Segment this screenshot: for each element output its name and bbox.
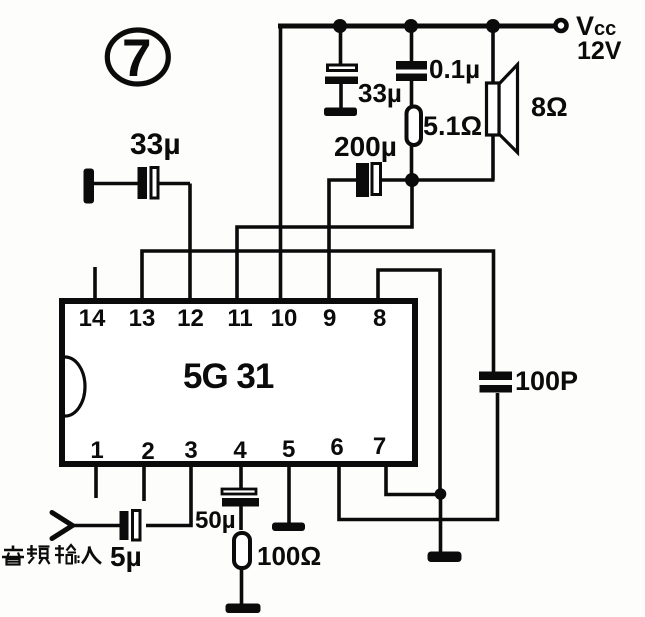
Vcc terminal xyxy=(556,20,567,31)
pin number 1 xyxy=(90,437,103,464)
node junction rail/speaker xyxy=(486,19,500,33)
pin number 8 xyxy=(373,305,386,332)
label 33u (input) xyxy=(130,128,181,161)
wire pin 7 to right bus xyxy=(386,466,440,495)
wire pin 4 to 50u xyxy=(239,466,243,489)
figure number 7 xyxy=(107,29,168,88)
capacitor 5u input xyxy=(74,511,140,541)
svg-text:100Ω: 100Ω xyxy=(257,541,321,571)
label 100P xyxy=(515,366,578,396)
pin number 12 xyxy=(177,305,204,332)
pin number 2 xyxy=(141,438,154,465)
wire pin 1 stub xyxy=(94,466,98,498)
ground (33u decoupling) xyxy=(324,108,357,117)
capacitor 33u input xyxy=(94,167,190,199)
pin number 6 xyxy=(330,434,343,461)
node junction pin7/pin8/ground xyxy=(435,488,447,500)
pin number 5 xyxy=(282,436,295,463)
pin number 3 xyxy=(184,437,197,464)
capacitor 200u xyxy=(329,163,406,300)
pin number 13 xyxy=(129,305,156,332)
ground (pin 5) xyxy=(272,523,305,532)
label 200u xyxy=(334,131,397,162)
svg-text:100P: 100P xyxy=(515,366,578,396)
svg-text:8: 8 xyxy=(373,305,386,332)
wire pin 3 to 5u xyxy=(146,466,191,526)
wire speaker to output node xyxy=(412,178,495,182)
svg-text:33µ: 33µ xyxy=(358,78,402,108)
resistor 100ohm xyxy=(234,533,250,604)
capacitor 50u xyxy=(222,489,259,530)
resistor 5.1ohm xyxy=(407,107,422,181)
pin number 14 xyxy=(79,305,106,332)
svg-text:1: 1 xyxy=(90,437,103,464)
input terminal bar xyxy=(84,169,95,204)
label Vcc xyxy=(576,11,616,41)
capacitor 100P xyxy=(479,372,512,393)
wire pin 5 to ground xyxy=(287,466,291,523)
svg-text:5: 5 xyxy=(282,436,295,463)
pin number 4 xyxy=(233,437,247,464)
svg-text:11: 11 xyxy=(227,305,252,332)
wire output node to pin 11 xyxy=(237,180,412,300)
svg-text:5.1Ω: 5.1Ω xyxy=(423,111,482,141)
wire rail to pin 10 xyxy=(279,24,283,300)
pin number 11 xyxy=(227,305,252,332)
char shu xyxy=(55,547,64,549)
label 0.1u xyxy=(429,54,480,84)
wire pin 14 stub xyxy=(93,267,97,300)
svg-text:13: 13 xyxy=(129,305,156,332)
wire pin 8 to right bus xyxy=(378,270,440,495)
capacitor 33u decoupling xyxy=(325,26,358,108)
node junction rail/33u xyxy=(333,19,347,33)
svg-text:4: 4 xyxy=(233,437,247,464)
label 33u (decoupling) xyxy=(358,78,402,108)
label 5u xyxy=(110,541,142,572)
wire 33u to pin 12 xyxy=(188,184,192,301)
svg-text:0.1µ: 0.1µ xyxy=(429,54,480,84)
char yin xyxy=(12,546,15,550)
capacitor 0.1u xyxy=(396,26,427,107)
svg-text:14: 14 xyxy=(79,305,106,332)
Vcc rail xyxy=(278,24,554,29)
char pin xyxy=(30,545,32,557)
svg-text:9: 9 xyxy=(323,305,336,332)
svg-text:6: 6 xyxy=(330,434,343,461)
speaker 8ohm xyxy=(487,26,518,180)
svg-text:200µ: 200µ xyxy=(334,131,397,162)
svg-text:3: 3 xyxy=(184,437,197,464)
svg-text:50µ: 50µ xyxy=(195,507,236,534)
label 100ohm xyxy=(257,541,321,571)
label 50u xyxy=(195,507,236,534)
wire pin 13 to 100P top xyxy=(142,251,494,372)
ground (100ohm) xyxy=(226,604,261,614)
pin number 10 xyxy=(271,305,298,332)
svg-text:12: 12 xyxy=(177,305,204,332)
label 8ohm xyxy=(531,92,568,122)
node output junction xyxy=(405,173,419,187)
wire pin 2 stub xyxy=(142,466,146,501)
pin number 7 xyxy=(373,433,386,460)
svg-text:10: 10 xyxy=(271,305,298,332)
input arrow xyxy=(52,513,73,539)
svg-text:8Ω: 8Ω xyxy=(531,92,568,122)
svg-text:2: 2 xyxy=(141,438,154,465)
label audio input (Chinese) xyxy=(2,545,101,565)
wire junction to ground xyxy=(439,494,443,552)
svg-text:5µ: 5µ xyxy=(110,541,142,572)
svg-text:7: 7 xyxy=(122,29,151,88)
ground (right bus) xyxy=(428,552,462,563)
node junction rail/0.1u xyxy=(404,19,418,33)
svg-text:7: 7 xyxy=(373,433,386,460)
svg-text:33µ: 33µ xyxy=(130,128,181,161)
svg-text:5G 31: 5G 31 xyxy=(183,357,274,396)
IC U1 5G31 xyxy=(62,301,415,464)
pin number 9 xyxy=(323,305,336,332)
wire pin 6 to 100P bottom xyxy=(339,393,498,520)
char ru xyxy=(82,547,90,564)
svg-text:12V: 12V xyxy=(577,37,622,65)
label 12V xyxy=(577,37,622,65)
label 5.1ohm xyxy=(423,111,482,141)
